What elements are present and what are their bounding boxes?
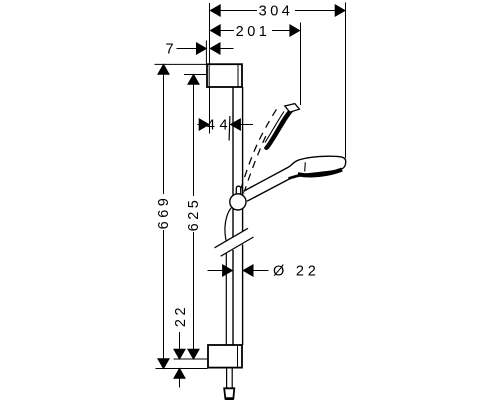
- svg-text:201: 201: [236, 24, 271, 40]
- svg-text:669: 669: [156, 195, 172, 230]
- svg-text:7: 7: [165, 42, 173, 58]
- dim 22 arrows: [179, 332, 181, 350]
- alt head cap: [285, 104, 300, 113]
- dashed handle edge right: [244, 132, 268, 194]
- bar upper segment: [233, 87, 243, 345]
- break lines across bar: [215, 228, 254, 256]
- dim 625 line: [193, 75, 195, 197]
- dim 669 line: [163, 64, 165, 194]
- hose conical nut: [224, 388, 234, 398]
- dim 44 arrows: [198, 124, 201, 126]
- hose below bottom bracket: [226, 368, 228, 388]
- svg-text:44: 44: [207, 118, 232, 134]
- handle + head outline: [244, 156, 346, 201]
- head spray-face band: [298, 170, 342, 176]
- dashed handle edge left: [241, 107, 279, 190]
- slider roundel: [230, 194, 246, 210]
- dashed alternate handshower position: [241, 104, 300, 194]
- dim 44 right tick: [228, 116, 231, 141]
- extension line 625 top: [184, 74, 206, 76]
- extension line 625 bottom: [174, 358, 209, 360]
- wall line (left extension line of 304/201/44 dims): [209, 3, 211, 64]
- 7 dim left tick: [205, 41, 207, 65]
- extension line 669 bottom: [156, 368, 208, 370]
- wall bar assembly: [207, 64, 254, 399]
- dim 201 right extension line: [300, 23, 302, 106]
- handshower (solid position): [244, 156, 346, 201]
- svg-text:304: 304: [259, 3, 294, 19]
- svg-text:Ø 22: Ø 22: [273, 263, 320, 279]
- dim 304 line: [210, 10, 257, 12]
- dim 201 line: [210, 30, 234, 32]
- alt head spray-face band: [264, 106, 295, 150]
- svg-text:22: 22: [173, 304, 189, 327]
- dimension texts: [156, 3, 320, 327]
- extension line top of bar (669 top): [155, 63, 208, 65]
- head joint tick: [304, 162, 307, 171]
- slider knob: [236, 186, 240, 194]
- bottom wall bracket: [208, 345, 242, 368]
- top wall bracket: [207, 64, 242, 87]
- dim 7 arrows: [177, 48, 198, 50]
- dim Ø22 arrows: [208, 270, 223, 272]
- svg-text:625: 625: [186, 197, 202, 232]
- hose along bar: [225, 208, 232, 242]
- dim 304 right extension line: [345, 3, 347, 159]
